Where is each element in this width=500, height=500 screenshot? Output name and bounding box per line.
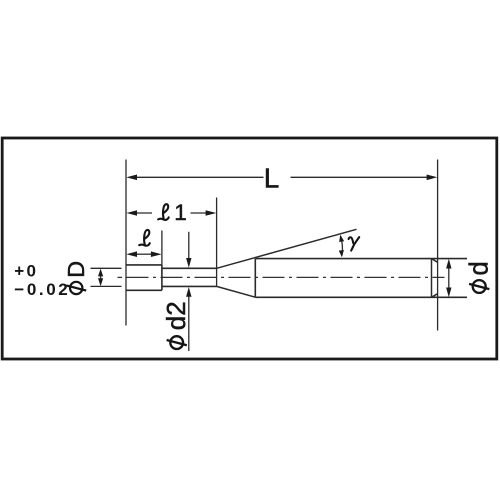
taper top slant (gamma reference line) (217, 229, 357, 268)
diameter d label (466, 261, 494, 293)
tool tip cylinder (cutting head, diameter D) (126, 265, 162, 290)
diameter d2 lower arrow (188, 297, 190, 352)
dimension l right arrowhead (151, 251, 162, 257)
svg-text:−0.02: −0.02 (14, 280, 70, 299)
svg-text:d: d (466, 261, 494, 275)
dimension l1 right arrowhead (206, 210, 217, 216)
svg-text:+0: +0 (14, 261, 38, 280)
angle gamma arc arrow (340, 236, 342, 255)
diameter d down arrowhead (446, 288, 451, 298)
taper bottom slant (217, 286, 256, 297)
diameter D label (63, 261, 89, 294)
svg-text:1: 1 (174, 200, 187, 225)
extension line right (shank end face) (437, 160, 439, 331)
dimension l script ell glyph (139, 230, 150, 246)
diameter D up arrowhead (98, 269, 103, 277)
extension line left (tool tip end) (125, 160, 127, 326)
diameter d2 upper arrow (188, 232, 190, 259)
shank end chamfer (432, 259, 438, 298)
shank (diameter d) (255, 259, 467, 298)
dimension l1 line (137, 212, 207, 214)
dimension L line (137, 176, 428, 178)
centerline (118, 276, 123, 278)
dimension L right arrowhead (427, 175, 438, 181)
diameter D down arrowhead (98, 278, 103, 286)
diameter D arrow shaft (100, 271, 102, 284)
extension line neck end (216, 198, 218, 287)
diameter d up arrowhead (446, 259, 451, 269)
dimension l1 script ell glyph (158, 204, 169, 220)
svg-text:L: L (264, 163, 280, 194)
border frame (2, 138, 497, 359)
dimension l line (137, 253, 153, 255)
dimension l left arrowhead (126, 251, 137, 257)
svg-text:D: D (63, 261, 89, 278)
extension line tip right edge (161, 231, 163, 265)
diameter d2 label (161, 301, 191, 349)
svg-text:d2: d2 (161, 301, 191, 330)
angle gamma label (349, 237, 360, 251)
dimension l1 left arrowhead (126, 210, 137, 216)
diameter d arrow shaft (448, 262, 450, 294)
diameter D dimension lines (91, 268, 122, 286)
dimension L left arrowhead (126, 175, 137, 181)
neck (diameter d2) (162, 268, 217, 286)
